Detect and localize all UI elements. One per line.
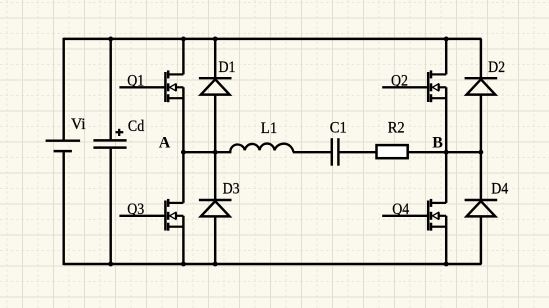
transistor Q2 bbox=[382, 70, 446, 102]
wire node A to L1 bbox=[183, 151, 231, 153]
transistor Q1 bbox=[119, 70, 183, 102]
wire L1 to C1 bbox=[293, 151, 331, 153]
junction top rail / Q1 bbox=[181, 37, 186, 42]
diode D3 bbox=[199, 200, 232, 216]
junction top rail / D1 bbox=[213, 37, 218, 42]
capacitor C1 bbox=[332, 138, 339, 166]
svg-text:Vi: Vi bbox=[71, 116, 86, 133]
wire Cd leg top bbox=[109, 39, 111, 139]
diode D2 bbox=[465, 78, 498, 94]
junction mid / D1 D3 bbox=[213, 150, 218, 155]
wire Q3 source to bottom rail bbox=[182, 216, 184, 264]
wire D2 to mid wire bbox=[480, 95, 482, 153]
wire bottom rail bbox=[64, 263, 482, 265]
junction bottom rail / Q3 bbox=[181, 262, 186, 267]
wire C1 to R2 bbox=[340, 151, 377, 153]
resistor R2 bbox=[377, 145, 408, 158]
transistor Q4 bbox=[382, 199, 446, 231]
svg-text:Q4: Q4 bbox=[392, 201, 409, 218]
wire mid node to D3 bbox=[214, 152, 216, 200]
wire D1 anode from top rail bbox=[214, 39, 216, 78]
wire D2 from top rail bbox=[480, 39, 482, 78]
junction top rail / Cd bbox=[108, 37, 113, 42]
wire Q2 source to node B to Q4 drain bbox=[445, 87, 447, 203]
wire left vertical below battery bbox=[62, 152, 64, 265]
junction bottom rail / Q4 bbox=[444, 262, 449, 267]
svg-text:B: B bbox=[432, 135, 443, 152]
wire D4 to bottom rail bbox=[480, 216, 482, 264]
wire left vertical above battery bbox=[62, 38, 64, 140]
junction node B bbox=[444, 150, 449, 155]
wire Q2 drain bbox=[445, 39, 447, 75]
junction top rail / Q2 bbox=[444, 37, 449, 42]
battery Vi bbox=[46, 141, 80, 151]
inductor L1 bbox=[230, 144, 293, 152]
svg-text:D3: D3 bbox=[223, 181, 240, 198]
junction bottom rail / D3 bbox=[213, 262, 218, 267]
junction bottom rail / Cd bbox=[108, 262, 113, 267]
wire mid to D4 bbox=[480, 152, 482, 200]
capacitor Cd bbox=[93, 129, 126, 148]
svg-text:Cd: Cd bbox=[128, 118, 144, 135]
wire Q1 source to node A to Q3 drain bbox=[182, 87, 184, 203]
junction mid / D2 D4 bbox=[479, 150, 484, 155]
svg-text:R2: R2 bbox=[388, 120, 405, 137]
svg-text:Q3: Q3 bbox=[127, 201, 144, 218]
svg-text:Q1: Q1 bbox=[127, 72, 144, 89]
svg-text:D1: D1 bbox=[219, 59, 236, 76]
wire D1 to mid node bbox=[214, 95, 216, 153]
wire D3 to bottom rail bbox=[214, 216, 216, 264]
wire Q1 drain bbox=[182, 39, 184, 75]
diode D4 bbox=[465, 200, 498, 216]
transistor Q3 bbox=[119, 199, 183, 231]
junction node A bbox=[181, 150, 186, 155]
wire Cd leg bottom bbox=[109, 149, 111, 264]
svg-text:D2: D2 bbox=[488, 59, 505, 76]
wire top rail bbox=[64, 38, 482, 40]
svg-text:A: A bbox=[159, 134, 171, 151]
svg-text:C1: C1 bbox=[330, 120, 347, 137]
diode D1 bbox=[199, 78, 232, 94]
wire Q4 source to bottom rail bbox=[445, 216, 447, 264]
wire R2 to node B bbox=[408, 151, 447, 153]
svg-text:L1: L1 bbox=[261, 120, 278, 137]
wire node B to D2/D4 leg bbox=[446, 151, 481, 153]
svg-text:Q2: Q2 bbox=[391, 72, 408, 89]
svg-text:D4: D4 bbox=[491, 181, 508, 198]
